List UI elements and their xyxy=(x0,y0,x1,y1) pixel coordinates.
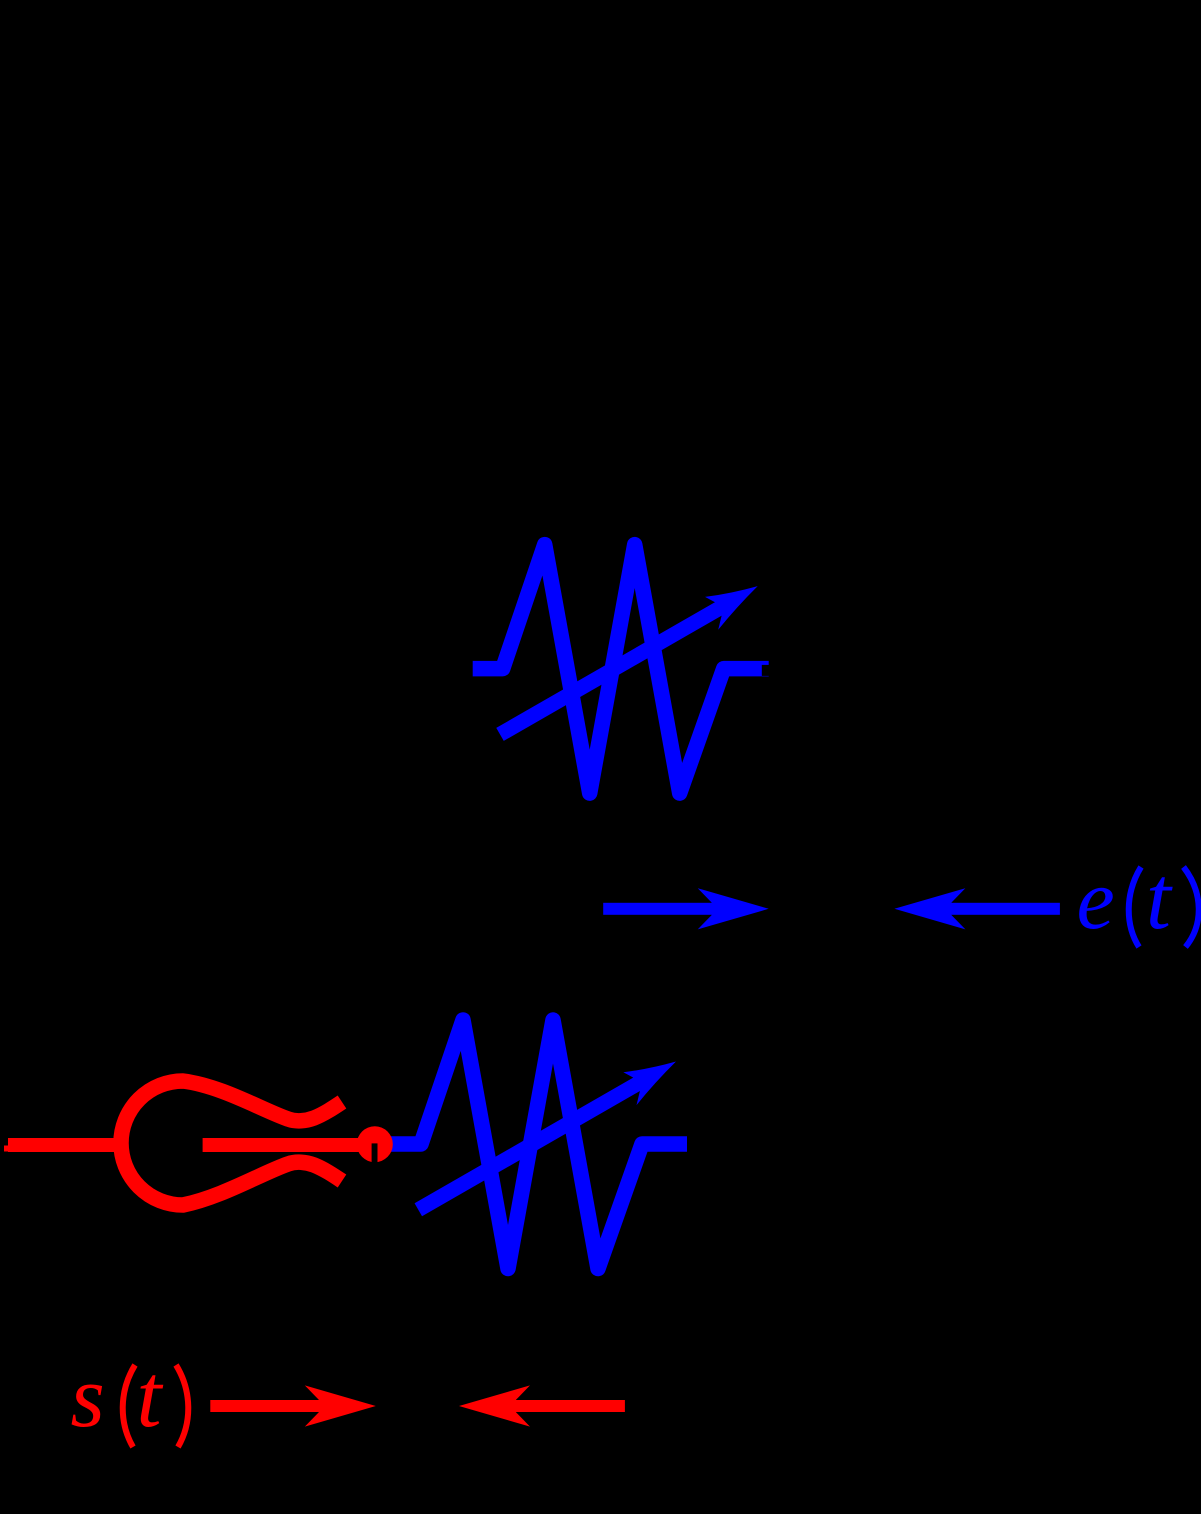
label e(t): opening parenthesis xyxy=(1129,867,1141,947)
svg-text:e: e xyxy=(1077,851,1115,947)
svg-text:t: t xyxy=(1146,849,1173,948)
resistor R2 zigzag body with leads xyxy=(376,1020,687,1269)
label s(t) xyxy=(71,1347,189,1447)
label e(t): closing parenthesis xyxy=(1184,867,1199,947)
bulb loop with wavy tails (one stroke) xyxy=(121,1081,342,1205)
resistor R1 adjustment arrow shaft xyxy=(500,608,720,734)
resistor R1 zigzag body with leads xyxy=(473,545,769,794)
e(t) left arrow shaft xyxy=(603,903,744,915)
resistor R2 adjustment arrow shaft xyxy=(418,1084,638,1210)
s(t) right arrowhead xyxy=(459,1385,530,1426)
dimension arrow pair e(t), blue xyxy=(603,888,1060,929)
label s(t): opening parenthesis xyxy=(123,1365,135,1447)
e(t) left arrowhead xyxy=(698,888,769,929)
black slit in wiper dot xyxy=(372,1143,378,1163)
node: red wiper dot xyxy=(357,1126,393,1162)
s(t) left arrowhead xyxy=(305,1385,376,1426)
wire: left red lead sliver end xyxy=(4,1146,9,1152)
source symbol (red bulb with wavy tails) xyxy=(121,1081,342,1205)
svg-text:t: t xyxy=(137,1347,164,1446)
svg-text:s: s xyxy=(71,1349,105,1446)
wire: inner red lead to wiper node xyxy=(203,1138,375,1152)
variable resistor R2 (lower, blue) xyxy=(376,1020,687,1269)
e(t) right arrow shaft xyxy=(918,903,1060,915)
resistor R2 adjustment arrowhead xyxy=(619,1047,685,1105)
e(t) right arrowhead xyxy=(894,888,965,929)
variable resistor R1 (upper, blue) xyxy=(473,545,769,794)
wire: left red lead xyxy=(8,1138,119,1152)
resistor R1 adjustment arrowhead xyxy=(701,571,767,629)
dimension arrow pair s(t), red xyxy=(210,1385,625,1426)
notch on R1 right lead end xyxy=(762,665,770,676)
s(t) left arrow shaft xyxy=(210,1400,351,1412)
label s(t): closing parenthesis xyxy=(176,1365,188,1447)
label e(t) xyxy=(1077,849,1199,948)
s(t) right arrow shaft xyxy=(483,1400,625,1412)
